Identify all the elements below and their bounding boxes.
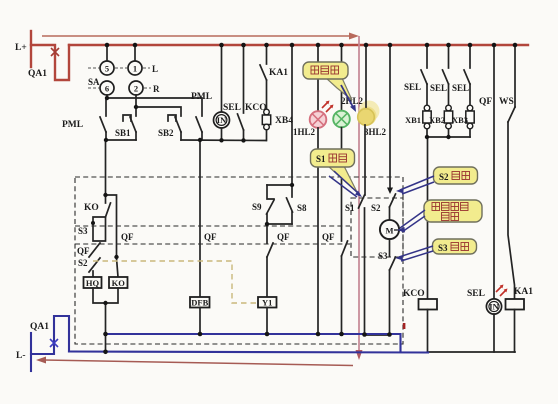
- svg-text:S3: S3: [378, 251, 388, 261]
- svg-text:SEL: SEL: [223, 103, 241, 113]
- callout pointer arrows to S2: [400, 176, 434, 194]
- wire S2 branch top lead with arrowhead: [387, 45, 393, 194]
- coil DFB: [190, 297, 210, 308]
- svg-text:S2: S2: [439, 172, 449, 182]
- lamp IN bottom right: [486, 299, 501, 314]
- breaker QA1 lower contact mark: [50, 339, 58, 347]
- fuse XB1: [423, 105, 431, 137]
- wire blue L- bus: [69, 352, 428, 353]
- lit arrows for bottom lamp: [496, 285, 508, 297]
- wire S2 to motor: [389, 207, 391, 220]
- wire S9/S8 split: [267, 184, 292, 186]
- wire HQ/KO branch feed: [105, 140, 107, 195]
- svg-text:2: 2: [134, 84, 138, 94]
- svg-text:XB1: XB1: [405, 115, 421, 125]
- svg-text:QF: QF: [322, 232, 335, 242]
- contact S2: [390, 194, 396, 207]
- wire QF to Y1 coil: [266, 257, 268, 297]
- node L- terminal: [30, 333, 32, 371]
- svg-text:KA1: KA1: [514, 287, 533, 297]
- svg-text:WS: WS: [499, 97, 514, 107]
- SA linkage dashes row L: [88, 67, 150, 69]
- wire Y1 to bus: [266, 308, 268, 335]
- coil HQ: [84, 277, 102, 288]
- labels SEL bank: [404, 82, 469, 93]
- pushbutton SB2: [168, 115, 181, 140]
- contact SEL 2 of right bank: [443, 45, 449, 105]
- wire rail to KCO coil: [427, 137, 429, 299]
- contact WS: [508, 45, 515, 299]
- callout S2-opens box: [434, 167, 478, 184]
- svg-text:SB2: SB2: [158, 128, 174, 138]
- motor M: [380, 220, 399, 239]
- glow of lamp 3HL2: [358, 101, 380, 126]
- wire DFB to bus: [199, 308, 201, 335]
- wire HQ/KO branch to bus: [105, 303, 107, 352]
- contact S1: [359, 195, 365, 208]
- wire thin red feeder with right arrow: [42, 33, 359, 40]
- junction dots blue buses: [103, 332, 392, 354]
- wire SA contact 1 lead: [134, 45, 136, 61]
- wire S3 branch bottom: [365, 270, 390, 335]
- wire S1 branch bottom: [364, 208, 366, 334]
- wire pilot rail right segment: [181, 139, 266, 142]
- contact QF left branch: [89, 243, 100, 257]
- wire DFB branch: [199, 140, 201, 297]
- wire to QF contact of Y1 branch: [266, 224, 268, 243]
- wire to HQ coil: [92, 271, 94, 277]
- switch SA contact 2: [129, 81, 143, 95]
- svg-text:SEL: SEL: [467, 289, 485, 299]
- svg-text:PML: PML: [191, 92, 212, 102]
- contact S2 left branch: [89, 258, 100, 272]
- dashed enclosure S switches: [351, 198, 403, 257]
- wire blue inner bus: [106, 333, 398, 335]
- fuse XB3: [466, 105, 474, 137]
- red tick mark: [403, 323, 406, 329]
- coil KA1: [506, 299, 525, 310]
- wire 3HL2 branch to S1: [364, 125, 366, 195]
- svg-text:QF: QF: [277, 232, 290, 242]
- contact KA1 top: [260, 45, 267, 109]
- wire lamp 3HL2 branch top: [365, 45, 367, 109]
- contact QF on 2HL2 branch: [342, 241, 348, 256]
- node L+ terminal: [30, 31, 32, 67]
- switch SA contact 5: [100, 61, 114, 75]
- contact PML right: [196, 117, 202, 140]
- wire lamp to rail: [493, 314, 495, 352]
- contact QF on Y1 branch: [267, 243, 273, 257]
- wire coils join: [93, 288, 118, 303]
- tan linkage S2 to Y1: [93, 261, 257, 303]
- lamp 2HL2: [333, 111, 350, 128]
- callout pointer head S3: [395, 256, 403, 261]
- svg-text:KO: KO: [112, 278, 126, 288]
- contact SEL 3 of right bank: [464, 45, 470, 105]
- svg-text:1HL2: 1HL2: [293, 127, 316, 137]
- callout S1-closes box: [311, 149, 358, 192]
- callout pointer arrows to S3: [399, 246, 433, 261]
- switch SA contact 1: [128, 61, 142, 75]
- fuse XB2: [444, 105, 452, 137]
- svg-text:5: 5: [105, 64, 109, 74]
- callout pointer head motor: [397, 227, 405, 233]
- dashed linkage QF upper: [75, 225, 350, 227]
- svg-text:KA1: KA1: [269, 68, 288, 78]
- dashed enclosure QF mechanism: [75, 177, 403, 344]
- svg-text:QA1: QA1: [30, 322, 49, 332]
- breaker QA1 (lower pole): [31, 316, 69, 354]
- lamp IN bottom lead: [221, 128, 223, 140]
- breaker QA1 (upper pole): [31, 45, 69, 80]
- svg-text:XB4: XB4: [275, 116, 293, 126]
- coil KO: [109, 277, 128, 288]
- wire maroon return with left arrow: [36, 357, 353, 366]
- svg-text:KO: KO: [84, 203, 99, 213]
- wire lamp 1HL2 branch top: [317, 45, 319, 111]
- svg-text:PML: PML: [62, 120, 83, 130]
- lamp 1HL2: [310, 111, 327, 128]
- svg-text:KCO: KCO: [403, 289, 425, 299]
- svg-text:6: 6: [105, 84, 109, 94]
- svg-text:DFB: DFB: [191, 297, 208, 307]
- svg-text:IN: IN: [217, 115, 227, 125]
- coil KCO: [419, 299, 438, 310]
- svg-text:S8: S8: [297, 203, 307, 213]
- wire lamp 2HL2 branch middle: [341, 128, 343, 242]
- pushbutton SB1: [123, 107, 136, 140]
- wire pilot rail left segment: [106, 139, 136, 141]
- svg-text:HQ: HQ: [86, 278, 100, 288]
- svg-text:S1: S1: [316, 154, 326, 164]
- lit arrows for 1HL2: [322, 101, 334, 113]
- contact S8: [287, 185, 293, 224]
- wire SA contact 5 lead: [106, 45, 108, 61]
- wire KO coil bypass: [106, 195, 119, 277]
- svg-text:XB3: XB3: [452, 115, 468, 125]
- callout pointer arrows to motor: [400, 210, 425, 232]
- wire KA1 to rail: [514, 310, 516, 353]
- contact KCO branch: [238, 45, 244, 140]
- svg-text:3HL2: 3HL2: [364, 127, 387, 137]
- svg-text:L: L: [152, 64, 158, 74]
- wire fuse rail: [427, 136, 470, 138]
- wire 2HL2 branch bottom: [341, 256, 343, 334]
- svg-text:IN: IN: [489, 302, 499, 312]
- callout pointer head S2: [396, 188, 404, 194]
- wire rail from SA contact 6: [107, 95, 202, 116]
- svg-text:1: 1: [133, 64, 137, 74]
- contact KO: [106, 195, 111, 217]
- contact PML left: [100, 98, 106, 140]
- callout pointer head S1: [355, 191, 362, 198]
- wire KCO to rail: [427, 310, 429, 353]
- svg-text:SB1: SB1: [115, 128, 131, 138]
- wire lamp 2HL2 branch top: [341, 45, 343, 111]
- junction dots pilot rails: [104, 96, 246, 143]
- svg-text:SEL: SEL: [430, 83, 447, 93]
- svg-text:R: R: [153, 84, 160, 94]
- svg-text:QF: QF: [77, 246, 90, 256]
- svg-text:SA: SA: [88, 77, 100, 87]
- callout pointer arrows to S1: [329, 171, 359, 197]
- breaker QA1 contact mark: [51, 48, 59, 56]
- wire S9/S8 branch top: [291, 45, 293, 185]
- svg-text:QA1: QA1: [28, 69, 47, 79]
- svg-text:QF: QF: [479, 97, 492, 107]
- lamp IN (SEL): [214, 112, 230, 128]
- svg-text:S2: S2: [371, 203, 381, 213]
- wire blue bus drop: [397, 334, 401, 352]
- svg-text:L-: L-: [16, 351, 26, 361]
- switch S3 link bracket: [93, 217, 106, 241]
- contact S3: [390, 257, 396, 270]
- callout yellow-lamp-on box: [303, 62, 352, 100]
- fuse XB4: [262, 109, 270, 140]
- svg-text:S3: S3: [438, 243, 448, 253]
- SA linkage dashes row R: [88, 87, 151, 89]
- lamp IN (SEL) lead: [221, 45, 223, 112]
- svg-text:XB2: XB2: [429, 115, 445, 125]
- dashed linkage QF lower: [75, 243, 350, 245]
- wire rail from SA contact 2: [136, 95, 181, 116]
- callout motor-stops box: [424, 200, 482, 222]
- wire bottom right rail: [428, 351, 516, 353]
- svg-text:S9: S9: [252, 202, 262, 212]
- svg-text:QF: QF: [121, 232, 134, 242]
- svg-text:M: M: [385, 226, 393, 236]
- contact SEL 1 of right bank: [421, 45, 427, 105]
- wire red feed to mid column with down arrow: [356, 36, 363, 360]
- svg-text:S2: S2: [78, 258, 88, 268]
- svg-text:Y1: Y1: [262, 298, 272, 308]
- junction dots branch nodes: [91, 135, 451, 305]
- svg-text:SEL: SEL: [452, 83, 469, 93]
- wire motor to S3: [389, 239, 391, 256]
- svg-text:S1: S1: [345, 203, 355, 213]
- contact S9: [267, 185, 275, 224]
- svg-text:L+: L+: [15, 43, 27, 53]
- svg-text:S3: S3: [78, 226, 88, 236]
- coil Y1: [258, 297, 277, 308]
- switch SA contact 6: [100, 81, 114, 95]
- svg-text:SEL: SEL: [404, 82, 421, 92]
- callout S3-opens box: [433, 239, 477, 254]
- wire QF lamp branch: [493, 45, 495, 299]
- wire S9/S8 rejoin: [267, 223, 292, 225]
- junction dots top bus: [105, 43, 518, 48]
- svg-text:QF: QF: [204, 232, 217, 242]
- wire lamp 1HL2 branch bottom: [317, 128, 319, 334]
- lamp 3HL2: [358, 109, 375, 126]
- callout pointer arrow to 3HL2: [341, 85, 356, 112]
- wire L+ bus: [69, 44, 528, 46]
